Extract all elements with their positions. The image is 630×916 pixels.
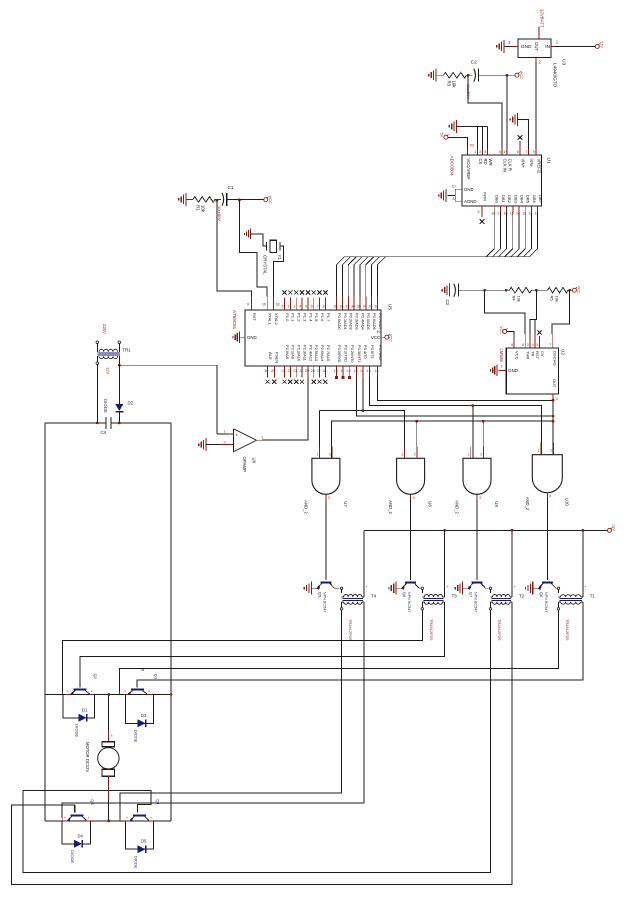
terminal +5V at ADC VCC/VREF — [444, 135, 448, 139]
wire Q4 base vertical — [74, 805, 76, 812]
svg-text:16: 16 — [375, 369, 379, 373]
pulse transformer T4 — [340, 587, 342, 589]
svg-text:P1.3: P1.3 — [302, 313, 307, 322]
top H-bridge rail — [45, 694, 171, 696]
svg-text:3: 3 — [413, 496, 415, 500]
svg-text:DB5: DB5 — [526, 195, 531, 204]
junction loop/D2 — [118, 422, 121, 425]
svg-text:15: 15 — [367, 369, 371, 373]
pin P1.6 with X no-connect — [319, 298, 321, 311]
wire 555 OUT down to gate U10 input — [552, 399, 554, 458]
svg-text:8: 8 — [511, 343, 513, 347]
wire ADC DB4 to MCU P0.4 — [360, 213, 519, 297]
wire gate U10 output to Q8 — [546, 497, 548, 580]
terminal VCC reset — [264, 198, 268, 202]
svg-text:7: 7 — [317, 305, 319, 309]
wire C3 to VCC terminal with resistors — [459, 289, 510, 291]
svg-text:24: 24 — [299, 369, 303, 373]
svg-text:CV: CV — [540, 351, 545, 357]
transistor Q7 NPN BC547 — [472, 581, 483, 583]
wire C1 to VCC terminal — [227, 198, 240, 200]
wire ground rail to CS/RD/WR pins — [457, 125, 488, 127]
junction on supply rail — [511, 529, 514, 532]
wire ground to regulator pin 3 — [504, 45, 518, 47]
svg-text:10k: 10k — [452, 81, 457, 89]
svg-text:32: 32 — [375, 305, 379, 309]
svg-text:DB0: DB0 — [495, 195, 500, 204]
svg-text:ALE: ALE — [268, 352, 273, 360]
svg-text:DSCHG: DSCHG — [553, 351, 558, 366]
AND gate U9 — [463, 458, 491, 494]
svg-text:37: 37 — [345, 305, 349, 309]
svg-text:VCC: VCC — [371, 335, 380, 340]
svg-text:R5: R5 — [550, 296, 555, 302]
svg-text:+: + — [64, 816, 66, 820]
terminal battery input — [595, 44, 599, 48]
svg-text:2: 2 — [329, 452, 331, 456]
svg-text:R1: R1 — [196, 205, 201, 211]
svg-text:1: 1 — [224, 429, 226, 433]
svg-text:4: 4 — [299, 305, 301, 309]
svg-text:5: 5 — [537, 343, 539, 347]
svg-text:+: + — [91, 690, 93, 694]
junction secondary right — [118, 364, 121, 367]
svg-text:P3.2/INT0: P3.2/INT0 — [350, 345, 355, 363]
wire RC junction to MCU RST pin — [217, 200, 251, 296]
svg-text:TRAN-2P2S: TRAN-2P2S — [497, 619, 502, 641]
svg-text:30: 30 — [265, 369, 269, 373]
wire ADC DB1 to MCU P0.1 — [342, 213, 500, 297]
wire R5 right to DSCHG pin — [552, 290, 570, 334]
IC ADC0804 U1 body — [462, 155, 542, 206]
svg-text:VREF/2: VREF/2 — [537, 159, 542, 174]
pin P3.7/RD — [377, 366, 379, 378]
svg-text:4: 4 — [532, 343, 534, 347]
svg-text:XTAL2: XTAL2 — [274, 313, 279, 325]
ground and capacitor C3 for 555 — [449, 284, 451, 297]
svg-text:1: 1 — [474, 150, 476, 154]
wire ADC DB3 to MCU P0.3 — [354, 213, 513, 297]
svg-text:26: 26 — [311, 369, 315, 373]
svg-text:AND_2: AND_2 — [455, 500, 460, 514]
small ground at ADC right top — [517, 113, 519, 126]
voltage regulator U3 body — [518, 39, 551, 58]
svg-text:U6: U6 — [252, 458, 257, 464]
svg-text:TRAN-2P2S: TRAN-2P2S — [429, 619, 434, 641]
svg-text:2: 2 — [551, 449, 553, 453]
wire VCC node to XTAL1 pin — [239, 200, 267, 296]
wire control pin to ground rail — [487, 126, 489, 149]
svg-text:P2.6/A14: P2.6/A14 — [320, 345, 325, 362]
terminal VCC — [515, 73, 519, 77]
svg-text:38: 38 — [339, 305, 343, 309]
svg-text:18: 18 — [276, 303, 280, 307]
svg-text:1: 1 — [316, 452, 318, 456]
svg-text:DB1: DB1 — [501, 195, 506, 204]
wire loop left side down to H-bridge — [44, 423, 46, 821]
svg-text:P1.0: P1.0 — [285, 313, 290, 322]
wire ADC DB7 to MCU P0.7 — [378, 213, 538, 297]
svg-text:P0.4/AD4: P0.4/AD4 — [360, 313, 365, 331]
svg-text:GND: GND — [521, 44, 532, 50]
svg-text:OPAMP: OPAMP — [242, 457, 247, 472]
pin P3.5/T1 — [369, 366, 371, 378]
svg-text:PSEN: PSEN — [275, 352, 280, 363]
svg-text:C3: C3 — [445, 300, 450, 306]
svg-text:VCC: VCC — [576, 286, 581, 294]
svg-text:2: 2 — [224, 440, 226, 444]
svg-text:P0.5/AD5: P0.5/AD5 — [366, 313, 371, 331]
AND gate U7 — [312, 458, 340, 494]
svg-text:GND: GND — [464, 187, 474, 192]
svg-text:P3.3/INT1: P3.3/INT1 — [357, 345, 362, 363]
svg-text:1: 1 — [501, 365, 503, 369]
wire ground to crystal left plate — [251, 234, 267, 246]
svg-text:THR: THR — [526, 351, 531, 359]
svg-text:220V: 220V — [102, 324, 107, 334]
pin P2.5/A13 — [313, 366, 315, 378]
pin P1.2 with X no-connect — [295, 298, 297, 311]
svg-text:+: + — [148, 690, 150, 694]
wire T4 primary right up to rail — [363, 530, 365, 597]
svg-text:DIODE: DIODE — [134, 730, 139, 743]
svg-text:2: 2 — [527, 343, 529, 347]
wire ground to R3 — [436, 74, 444, 76]
svg-text:CLK R: CLK R — [508, 159, 513, 171]
wire regulator OUT pin 2 down to ADC VCC pin — [535, 58, 537, 63]
terminal 12V rail — [608, 528, 612, 532]
svg-text:Q1: Q1 — [156, 799, 161, 805]
svg-text:P1.6: P1.6 — [320, 313, 325, 322]
wire regulator input stub from battery label — [538, 27, 540, 40]
svg-text:INTR: INTR — [483, 192, 488, 201]
wire gate U7 output to Q5 — [325, 500, 327, 580]
svg-text:AT89C51: AT89C51 — [232, 310, 237, 330]
svg-text:P3.4/T0: P3.4/T0 — [363, 345, 368, 360]
junction loop/TR1 — [96, 422, 99, 425]
motor DC 12V — [108, 695, 110, 731]
transistor Q8 NPN BC547 — [542, 581, 553, 583]
pin P2.4/A12 — [307, 366, 309, 378]
svg-text:U8: U8 — [428, 501, 433, 507]
ground upper-left of ADC — [456, 120, 458, 133]
wire T3 secondary right to Q2 base — [80, 610, 444, 688]
wire C2 to VCC terminal — [479, 74, 508, 76]
svg-text:U1: U1 — [547, 158, 552, 164]
svg-text:14: 14 — [360, 369, 364, 373]
svg-text:GND: GND — [508, 368, 518, 373]
wire Q8 collector to transformer T1 — [555, 587, 558, 589]
pin P1.1 with X no-connect — [289, 298, 291, 311]
svg-text:TRAN-2P2S: TRAN-2P2S — [565, 619, 570, 641]
crystal Y1 body — [266, 242, 268, 250]
svg-text:19: 19 — [504, 150, 508, 154]
ADC GND/AGND bracket to ground — [455, 188, 462, 190]
svg-text:D4: D4 — [78, 833, 84, 838]
svg-text:1: 1 — [468, 452, 470, 456]
svg-text:P0.3/AD3: P0.3/AD3 — [355, 313, 360, 330]
ground for R1 — [185, 193, 187, 206]
svg-text:1: 1 — [282, 305, 284, 309]
svg-text:Q5: Q5 — [317, 592, 322, 598]
diode D5 loop — [126, 821, 154, 849]
svg-text:C1: C1 — [228, 185, 234, 190]
wire op-amp output to MCU P2.4 — [257, 439, 263, 441]
svg-text:T4: T4 — [371, 594, 377, 599]
svg-text:P0.2/AD2: P0.2/AD2 — [349, 313, 354, 330]
wire TR1 secondary right to junction — [118, 362, 120, 366]
svg-text:Q7: Q7 — [469, 592, 474, 598]
svg-text:10k: 10k — [517, 296, 522, 304]
svg-text:1: 1 — [538, 449, 540, 453]
svg-text:36: 36 — [351, 305, 355, 309]
diode D2 1N4007 — [118, 365, 120, 404]
svg-text:12VBATT: 12VBATT — [540, 9, 545, 28]
svg-text:22: 22 — [288, 369, 292, 373]
op-amp U6 comparator — [234, 429, 257, 452]
wire P3.3 to 555 output node — [357, 378, 554, 417]
small ground for crystal — [250, 229, 252, 239]
wire T2 secondary right to Q1 base (outer) — [12, 610, 512, 885]
T3 secondary pins — [421, 602, 423, 608]
svg-text:+: + — [67, 690, 69, 694]
svg-text:12V: 12V — [600, 41, 605, 48]
pin P3.4/T0 — [362, 366, 364, 378]
pulse transformer T2 — [489, 587, 491, 589]
pin PSEN with X no-connect — [273, 366, 275, 378]
pin P3.2/INT0 — [349, 366, 351, 378]
svg-text:T2: T2 — [519, 594, 525, 599]
junction node R3/C2 — [467, 74, 470, 77]
transistor Q6 NPN BC547 — [405, 581, 416, 583]
svg-text:ADC0804: ADC0804 — [450, 156, 455, 176]
ground at Q7 emitter — [462, 582, 464, 595]
svg-text:Q4: Q4 — [90, 799, 95, 805]
wire regulator IN to battery terminal — [551, 45, 556, 47]
svg-text:U2: U2 — [561, 349, 566, 355]
svg-text:3: 3 — [328, 496, 330, 500]
svg-text:TR1: TR1 — [123, 348, 132, 353]
transistor Q4 H-bridge NPN — [71, 814, 84, 816]
pin P3.3/INT1 — [356, 366, 358, 378]
AND gate U10 — [532, 455, 562, 493]
svg-text:OUT: OUT — [534, 42, 539, 52]
svg-text:VCC: VCC — [519, 71, 524, 80]
transistor Q5 NPN BC547 — [320, 581, 331, 583]
svg-text:27: 27 — [317, 369, 321, 373]
svg-text:+: + — [126, 816, 128, 820]
svg-text:D1: D1 — [82, 707, 88, 712]
svg-text:4: 4 — [499, 150, 501, 154]
wire T3 secondary left to top rail left — [63, 610, 423, 692]
svg-text:T3: T3 — [452, 594, 458, 599]
svg-text:6: 6 — [311, 305, 313, 309]
svg-text:VIN+: VIN+ — [521, 159, 526, 169]
pin P1.5 with X no-connect — [313, 298, 315, 311]
pin P1.4 with X no-connect — [307, 298, 309, 311]
wire T2 primary right up to rail — [511, 530, 513, 597]
svg-text:DB2: DB2 — [507, 195, 512, 204]
svg-text:U7: U7 — [343, 501, 348, 507]
IC 555 U2 body — [506, 348, 558, 394]
svg-text:25: 25 — [305, 369, 309, 373]
svg-text:DB6: DB6 — [532, 195, 537, 204]
ground at Q6 emitter — [395, 582, 397, 595]
wire gate U9 output to Q7 — [476, 500, 478, 580]
svg-text:5V: 5V — [440, 133, 444, 138]
diode D3 loop — [126, 695, 154, 724]
svg-text:U5: U5 — [388, 304, 393, 310]
svg-text:AND_2: AND_2 — [388, 500, 393, 514]
svg-text:12V: 12V — [612, 524, 616, 531]
ground at inverting input — [205, 438, 207, 451]
svg-text:12: 12 — [347, 369, 351, 373]
svg-text:CLK IN: CLK IN — [503, 159, 508, 173]
AND gate U8 — [397, 458, 425, 494]
resistor R5 — [548, 287, 569, 293]
pin P3.1/TXD — [342, 366, 344, 378]
junction C3 branch — [483, 289, 486, 292]
svg-text:TRAN-2P2S: TRAN-2P2S — [348, 619, 353, 641]
wire R4/R5 junction to TR and RST pins — [530, 290, 536, 334]
svg-text:LM555: LM555 — [499, 349, 504, 363]
svg-text:AGND: AGND — [464, 199, 477, 204]
svg-text:XTAL1: XTAL1 — [268, 313, 273, 325]
pin P2.2/A10 — [295, 366, 297, 378]
svg-text:AND_2: AND_2 — [525, 497, 530, 511]
svg-text:Q6: Q6 — [402, 592, 407, 598]
IC AT89C51 U5 body — [245, 310, 381, 366]
svg-text:Q2: Q2 — [93, 674, 98, 680]
svg-text:NPN BC547: NPN BC547 — [544, 592, 548, 613]
svg-text:U3: U3 — [561, 59, 567, 66]
svg-text:P2.2/A10: P2.2/A10 — [297, 345, 302, 362]
ground at Q8 emitter — [532, 582, 534, 595]
svg-text:9: 9 — [247, 303, 249, 307]
svg-text:8: 8 — [323, 305, 325, 309]
svg-text:P2.7/A15: P2.7/A15 — [326, 345, 331, 362]
wire T1 primary right up to rail — [582, 530, 584, 597]
svg-text:10: 10 — [452, 185, 456, 189]
svg-text:C4: C4 — [101, 430, 107, 435]
svg-text:10u/50V: 10u/50V — [217, 206, 222, 221]
ground for R3 — [435, 69, 437, 82]
wire T4 secondary right to bottom rail — [62, 610, 364, 818]
svg-text:10k: 10k — [201, 205, 206, 213]
svg-text:VCC: VCC — [515, 351, 520, 360]
wire loop right side down to H-bridge — [170, 423, 172, 821]
svg-text:P3.0/RXD: P3.0/RXD — [337, 345, 342, 363]
wire ADC DB0 to MCU P0.0 — [337, 213, 495, 297]
svg-text:RST: RST — [252, 313, 257, 321]
svg-text:P2.4/A12: P2.4/A12 — [308, 345, 313, 361]
junction on supply rail — [581, 529, 584, 532]
svg-text:P1.5: P1.5 — [314, 313, 319, 322]
wire T1 secondary left to top rail right — [119, 610, 558, 692]
wire Q5 collector to transformer T4 — [334, 587, 339, 589]
svg-text:11: 11 — [340, 369, 344, 373]
svg-text:6: 6 — [522, 343, 524, 347]
wire ADC DB6 to MCU P0.6 — [372, 213, 532, 297]
svg-text:1: 1 — [261, 435, 263, 439]
svg-text:28: 28 — [323, 369, 327, 373]
svg-text:P1.1: P1.1 — [291, 313, 296, 322]
svg-text:C2: C2 — [471, 60, 477, 65]
svg-text:7: 7 — [525, 150, 527, 154]
svg-text:P0.6/AD6: P0.6/AD6 — [372, 313, 377, 330]
svg-text:DB4: DB4 — [520, 195, 525, 204]
svg-text:DIODE: DIODE — [134, 856, 139, 869]
svg-text:P0.0/AD0: P0.0/AD0 — [337, 313, 342, 331]
wire crystal right plate to XTAL2 pin — [274, 246, 284, 296]
svg-text:+: + — [88, 816, 90, 820]
pin P1.3 with X no-connect — [301, 298, 303, 311]
svg-text:TR: TR — [530, 351, 535, 356]
wire T1 secondary right to Q3 base — [137, 610, 583, 688]
wire C3 junction to THR pin — [485, 290, 526, 334]
svg-text:Y1: Y1 — [277, 255, 282, 261]
svg-text:2: 2 — [479, 150, 481, 154]
wire ground to R1 — [186, 198, 193, 200]
pin P2.1/A9 — [289, 366, 291, 378]
unconnected pin square — [341, 376, 344, 379]
svg-text:3: 3 — [293, 305, 295, 309]
svg-text:DIODE: DIODE — [70, 850, 75, 863]
svg-text:19: 19 — [262, 303, 266, 307]
svg-text:T1: T1 — [590, 594, 596, 599]
pin P2.7/A15 — [324, 366, 326, 378]
svg-text:L4940/GTO: L4940/GTO — [553, 63, 558, 87]
svg-text:39: 39 — [334, 305, 338, 309]
svg-text:P1.4: P1.4 — [308, 313, 313, 322]
svg-text:R4: R4 — [512, 296, 517, 302]
X no-connect on ADC pin — [518, 135, 523, 140]
svg-text:12V: 12V — [106, 367, 111, 375]
svg-text:1: 1 — [401, 452, 403, 456]
svg-text:AND_2: AND_2 — [303, 500, 308, 514]
svg-text:+: + — [150, 816, 152, 820]
wire small ground to ADC pin — [518, 120, 529, 150]
wire terminal to VCC/VREF pin — [448, 138, 468, 149]
wire ADC DB2 to MCU P0.2 — [348, 213, 506, 297]
svg-text:9: 9 — [533, 150, 535, 154]
pulse transformer T3 — [421, 587, 423, 589]
svg-text:DB7: DB7 — [538, 195, 543, 204]
resistor R1 10k — [193, 197, 215, 203]
pin P1.0 with X no-connect — [284, 298, 286, 311]
junction on supply rail — [443, 529, 446, 532]
svg-text:GND: GND — [247, 335, 257, 340]
pin P3.0/RXD — [336, 366, 338, 378]
svg-text:VCC: VCC — [499, 326, 503, 334]
svg-text:OUT: OUT — [552, 379, 557, 388]
T4 secondary pins — [341, 602, 343, 608]
svg-text:D3: D3 — [141, 713, 147, 718]
pulse transformer T1 — [557, 587, 559, 589]
svg-text:29: 29 — [271, 369, 275, 373]
junction R5 right — [568, 289, 571, 292]
diode D4 loop — [62, 821, 91, 844]
svg-text:U9: U9 — [494, 501, 499, 507]
svg-text:NPN BC547: NPN BC547 — [322, 592, 326, 613]
unconnected pin square — [348, 376, 351, 379]
pin P1.7 with X no-connect — [324, 298, 326, 311]
wire T3 primary right up to rail — [444, 530, 446, 597]
svg-text:VCC: VCC — [268, 196, 273, 205]
svg-text:3: 3 — [479, 496, 481, 500]
wire gate U8 output to Q6 — [410, 500, 412, 580]
wire RC junction down to ADC CLK IN pin — [468, 75, 502, 149]
